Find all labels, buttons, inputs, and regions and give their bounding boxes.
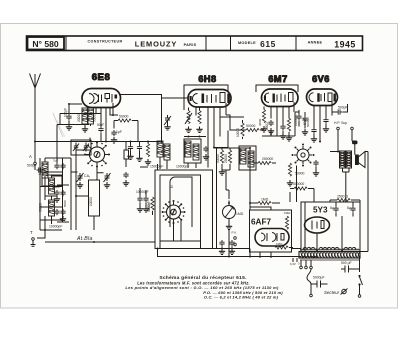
wire mid verticals to power box bbox=[290, 166, 314, 203]
box power bbox=[301, 202, 360, 252]
svg-text:H.P. Sup: H.P. Sup bbox=[334, 121, 347, 125]
power transformer T1 bbox=[299, 248, 360, 260]
wire bottom bus2 bbox=[213, 248, 302, 250]
header divider 3 bbox=[230, 36, 232, 51]
terminal T bbox=[30, 230, 36, 246]
primary winding bumps bbox=[302, 256, 317, 258]
terminal PU a bbox=[234, 237, 237, 240]
tube 6AF7 bbox=[255, 229, 289, 247]
svg-text:500pF: 500pF bbox=[27, 164, 37, 168]
trimmer MF1 secondary bbox=[164, 115, 171, 130]
wire tie y124.5 bbox=[57, 124, 89, 126]
resistor horiz 1MΩ2 bbox=[250, 198, 280, 205]
svg-text:P.U.: P.U. bbox=[232, 231, 238, 235]
svg-text:500 μF: 500 μF bbox=[341, 261, 352, 265]
svg-text:PARIS: PARIS bbox=[184, 43, 197, 47]
tube 6V6 bbox=[307, 89, 338, 106]
tube 6M7 bbox=[262, 89, 299, 107]
svg-text:1MΩ: 1MΩ bbox=[276, 242, 283, 246]
resistor 10000 vertical bbox=[236, 120, 244, 139]
svg-text:250000: 250000 bbox=[262, 157, 273, 161]
capacitor det a bbox=[219, 240, 225, 255]
tube 6H8 bbox=[188, 90, 231, 108]
coil L1 bbox=[42, 162, 48, 178]
wire 6H8 pin drops bbox=[196, 108, 228, 148]
capacitor 5000uF bbox=[310, 276, 328, 297]
mains switch bbox=[360, 258, 363, 295]
capacitor 500uF right bbox=[341, 261, 360, 273]
resistor 1MΩ below right bbox=[275, 242, 293, 249]
wires left column bbox=[37, 150, 76, 238]
svg-text:50000: 50000 bbox=[216, 154, 220, 163]
svg-text:6V6: 6V6 bbox=[312, 74, 330, 84]
wire plate to transformer bbox=[330, 151, 339, 153]
box aerial trimmers bbox=[71, 140, 91, 155]
capacitor pair C1 bbox=[54, 163, 65, 169]
box inner bbox=[160, 175, 201, 241]
svg-text:300Ω: 300Ω bbox=[258, 118, 262, 126]
svg-text:615: 615 bbox=[260, 39, 276, 49]
svg-text:100pF: 100pF bbox=[64, 108, 68, 117]
MF1 coil pair bbox=[157, 141, 170, 169]
resistor 50000 to right bbox=[226, 115, 264, 132]
wire left col ties bbox=[40, 172, 62, 230]
capacitor 1uF bbox=[111, 121, 122, 144]
svg-text:5Y3: 5Y3 bbox=[313, 206, 328, 215]
wire tie y117 6H8-6M7 bbox=[220, 116, 244, 118]
HP Sup terminals bbox=[334, 121, 355, 151]
trimmer CA2 bbox=[104, 173, 111, 188]
trimmer in box b bbox=[83, 143, 89, 152]
resistor horiz under S3 bbox=[290, 187, 314, 190]
wire under 6M7 ties bbox=[262, 112, 299, 136]
capacitor beside MF2 bbox=[203, 146, 209, 160]
capacitor pair mid1 bbox=[137, 167, 149, 212]
primary taps bbox=[290, 258, 312, 269]
capacitor 100pF grid bbox=[64, 104, 83, 130]
capacitor 8uF b bbox=[347, 206, 356, 217]
svg-text:6M7: 6M7 bbox=[268, 74, 287, 84]
svg-text:ANNEE: ANNEE bbox=[308, 41, 323, 45]
resistor column x230 bbox=[228, 148, 231, 170]
capacitor 8uF a bbox=[330, 206, 339, 217]
svg-text:1MΩ: 1MΩ bbox=[261, 198, 269, 202]
resistor 50000 horizontal bbox=[114, 115, 138, 142]
band switch S2 bbox=[162, 200, 186, 224]
trimmer CA1 bbox=[77, 173, 91, 188]
wire HT top bbox=[160, 141, 162, 143]
wire left col verticals bbox=[40, 158, 63, 230]
wires mid right bbox=[214, 148, 250, 203]
terminal PU b bbox=[234, 243, 237, 246]
bottom text block bbox=[125, 275, 283, 300]
svg-text:6E8: 6E8 bbox=[92, 72, 111, 83]
MF3 coils right of 6H8 area bbox=[239, 146, 256, 170]
junction dots network bbox=[34, 103, 343, 258]
wires under box bbox=[160, 220, 201, 249]
svg-text:25000: 25000 bbox=[224, 154, 228, 163]
wire tie y113.5 bbox=[60, 113, 101, 115]
ground left2 bbox=[60, 216, 66, 222]
svg-text:1MΩ: 1MΩ bbox=[236, 212, 244, 216]
wire vert x216 bbox=[216, 148, 218, 249]
svg-text:T: T bbox=[30, 230, 33, 235]
ground left1 bbox=[54, 196, 60, 202]
header divider 2 bbox=[205, 36, 207, 51]
wire drops to bus y256 bbox=[229, 229, 271, 257]
svg-text:8μ: 8μ bbox=[330, 206, 334, 210]
svg-text:500pF: 500pF bbox=[338, 106, 348, 110]
capacitor hang x139 bbox=[136, 142, 142, 162]
coil L3 bbox=[49, 200, 55, 216]
capacitor pair C3 bbox=[54, 209, 65, 215]
resistor column x222 bbox=[219, 148, 225, 175]
svg-text:O.C. — 6,2 et 14,2 MHz ( 48 e: O.C. — 6,2 et 14,2 MHz ( 48 et 22 m) bbox=[204, 294, 279, 299]
svg-text:15000pF: 15000pF bbox=[150, 165, 163, 169]
svg-text:500000: 500000 bbox=[293, 182, 304, 186]
chassis symbol bbox=[341, 289, 348, 295]
speaker terminal bbox=[353, 141, 358, 155]
wire left vert x157 bbox=[157, 164, 159, 170]
wire grid line y141 bbox=[35, 141, 162, 143]
oscillator coil box bbox=[89, 180, 100, 230]
svg-text:50pF: 50pF bbox=[303, 118, 307, 125]
band switch S1 bbox=[84, 142, 110, 168]
dot mains sw bbox=[358, 275, 360, 286]
capacitor det b bbox=[229, 240, 235, 255]
secondary windings row bbox=[303, 248, 356, 250]
tone switch S3 bbox=[292, 144, 315, 167]
svg-text:8μ: 8μ bbox=[347, 206, 351, 210]
capacitor under 6V6 a bbox=[311, 128, 317, 143]
capacitor x305 bbox=[302, 112, 308, 135]
resistor R4 bbox=[196, 108, 202, 133]
svg-text:10000pF: 10000pF bbox=[136, 190, 149, 194]
svg-text:250Ω: 250Ω bbox=[265, 122, 269, 130]
output transformer T2 bbox=[340, 151, 352, 168]
speaker bbox=[356, 152, 366, 168]
svg-text:6,3V: 6,3V bbox=[290, 262, 296, 266]
wires 6E8 pins bbox=[106, 103, 118, 142]
svg-text:6H8: 6H8 bbox=[198, 74, 216, 84]
box 6AF7 bbox=[250, 210, 292, 252]
box outer bbox=[155, 170, 213, 249]
capacitor 500pF antenna bbox=[27, 164, 46, 173]
capacitor 50pF bbox=[97, 108, 104, 142]
svg-text:CONSTRUCTEUR: CONSTRUCTEUR bbox=[88, 40, 123, 44]
wire bus y256 bbox=[158, 249, 302, 257]
header outer box bbox=[27, 36, 363, 51]
svg-text:10000pF: 10000pF bbox=[176, 165, 189, 169]
resistor x289 bbox=[286, 118, 292, 141]
wire left ties bbox=[71, 150, 104, 216]
wire 6E8 plate to right bbox=[120, 95, 189, 142]
svg-text:10000: 10000 bbox=[236, 128, 240, 137]
coil L2 bbox=[49, 178, 55, 194]
wire right bus x368 bbox=[360, 152, 368, 252]
box padder left bbox=[42, 175, 62, 186]
terminal A bbox=[29, 154, 36, 170]
wire 6M7 pins bbox=[271, 102, 294, 137]
wire drop x57 bbox=[57, 114, 60, 164]
trimmer in box a bbox=[73, 143, 79, 152]
header divider 1 bbox=[65, 36, 67, 51]
wire bottom left bus bbox=[45, 241, 155, 243]
svg-text:30pF: 30pF bbox=[53, 185, 60, 189]
coil under 6E8 a bbox=[77, 108, 88, 132]
capacitor under 6V6 b bbox=[323, 118, 329, 133]
svg-text:N° 580: N° 580 bbox=[32, 39, 59, 49]
shield box over 6H8 bbox=[184, 85, 228, 110]
svg-text:5000: 5000 bbox=[63, 200, 67, 207]
svg-text:CA₁: CA₁ bbox=[84, 174, 91, 178]
wire 6AF7 top feeds bbox=[250, 203, 271, 258]
capacitor pair C2 bbox=[54, 190, 65, 196]
tube 5Y3 bbox=[305, 217, 330, 233]
svg-text:2500 Ω: 2500 Ω bbox=[337, 195, 348, 199]
wires in power box bbox=[305, 200, 360, 251]
capacitor under 6M7 bbox=[268, 120, 274, 134]
resistor 1MΩ right of 6AF7 bbox=[284, 211, 291, 229]
svg-text:50000: 50000 bbox=[246, 124, 256, 128]
svg-text:1945: 1945 bbox=[334, 40, 356, 50]
potentiometer P1 bbox=[223, 201, 236, 230]
wire 6E8 extra bbox=[90, 108, 118, 142]
svg-text:N: N bbox=[170, 185, 174, 188]
capacitor x283 bbox=[280, 124, 286, 139]
svg-text:10000: 10000 bbox=[89, 197, 93, 206]
svg-text:1000: 1000 bbox=[38, 168, 42, 175]
box rounded bbox=[170, 177, 192, 227]
tube 6E8 bbox=[82, 89, 121, 108]
junction dots y136.5 bbox=[188, 136, 201, 138]
resistor R6 bbox=[261, 107, 267, 133]
wire tie y136.5 bbox=[184, 136, 206, 138]
svg-text:At.Bla: At.Bla bbox=[76, 236, 93, 242]
resistor hang x148 bbox=[145, 142, 151, 166]
capacitor 500pF 6V6 bbox=[332, 104, 348, 115]
svg-text:20000: 20000 bbox=[77, 113, 81, 122]
svg-text:MODELE: MODELE bbox=[238, 41, 256, 45]
scan smudge bbox=[53, 113, 63, 137]
resistor under S3 bbox=[287, 163, 293, 186]
resistor vert x126 bbox=[124, 142, 129, 168]
capacitor 10000pF x299 bbox=[296, 110, 301, 127]
shield box over 6M7 bbox=[256, 85, 298, 92]
header divider 4 bbox=[295, 36, 297, 51]
MF2 transformer bbox=[184, 139, 201, 168]
svg-text:50000: 50000 bbox=[119, 115, 129, 119]
wire 6V6 pins bbox=[314, 102, 332, 142]
svg-text:7μF: 7μF bbox=[53, 159, 58, 163]
terminal mains bbox=[358, 295, 361, 298]
svg-text:10000pF: 10000pF bbox=[49, 225, 62, 229]
wires transformer down bbox=[343, 168, 350, 202]
svg-text:6AF7: 6AF7 bbox=[251, 218, 271, 227]
choke 2500Ω bbox=[330, 195, 360, 202]
svg-text:5000μF: 5000μF bbox=[313, 276, 325, 280]
capacitor hang x130 bbox=[127, 142, 133, 160]
capacitor under S3 bbox=[313, 160, 319, 176]
svg-text:LEMOUZY: LEMOUZY bbox=[135, 40, 177, 49]
wire curvy primary bbox=[307, 269, 311, 294]
svg-text:Secteur: Secteur bbox=[324, 290, 340, 295]
coil under 6E8 b bbox=[88, 108, 97, 126]
svg-text:50000: 50000 bbox=[147, 203, 151, 211]
svg-text:1MΩ: 1MΩ bbox=[284, 211, 291, 215]
resistor 50000 left of box bbox=[147, 197, 155, 215]
header box N.580 bbox=[28, 37, 65, 50]
resistor horiz mid bbox=[254, 161, 276, 164]
svg-text:1μF: 1μF bbox=[116, 130, 122, 134]
antenna bbox=[30, 74, 41, 163]
resistor R3 with arrow bbox=[185, 108, 192, 133]
capacitor x126 low bbox=[123, 172, 129, 186]
svg-text:A: A bbox=[29, 154, 32, 159]
wires 6H8 pins bbox=[208, 103, 226, 168]
